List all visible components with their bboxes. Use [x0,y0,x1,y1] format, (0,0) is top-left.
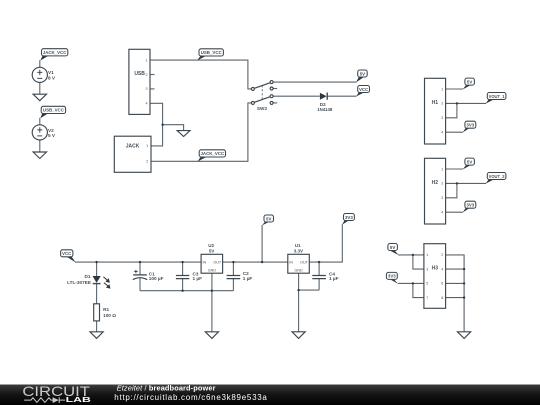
svg-text:D1: D1 [85,274,91,279]
svg-text:2: 2 [441,102,443,106]
svg-text:8: 8 [441,296,443,300]
svg-text:4: 4 [441,267,443,271]
svg-text:5V: 5V [209,249,215,254]
svg-text:IN: IN [203,261,207,265]
svg-text:1 µF: 1 µF [243,276,253,281]
svg-text:3.3V: 3.3V [294,249,303,254]
svg-text:5V: 5V [390,245,395,250]
svg-text:1: 1 [426,253,428,257]
svg-text:1: 1 [146,144,148,148]
svg-text:5V: 5V [467,159,472,164]
svg-text:5 V: 5 V [48,133,56,138]
svg-text:3V3: 3V3 [345,215,353,220]
svg-text:IN: IN [289,261,293,265]
svg-text:GND: GND [208,269,217,273]
svg-text:USB_VCC: USB_VCC [201,50,223,55]
svg-text:VOUT_2: VOUT_2 [489,174,506,179]
svg-text:2: 2 [441,253,443,257]
svg-text:3V3: 3V3 [466,203,474,208]
svg-text:100 µF: 100 µF [149,276,164,281]
svg-text:V1: V1 [48,70,54,75]
svg-text:SW2: SW2 [257,106,268,111]
svg-text:2: 2 [146,73,148,77]
svg-text:VOUT_1: VOUT_1 [489,94,506,99]
svg-text:http://circuitlab.com/c6ne3k89: http://circuitlab.com/c6ne3k89e533a [114,393,267,402]
svg-text:V2: V2 [48,128,54,133]
svg-text:U1: U1 [295,243,301,248]
svg-text:3V3: 3V3 [388,274,396,279]
svg-text:8 V: 8 V [48,76,56,81]
svg-text:USB_VCC: USB_VCC [43,108,65,113]
svg-text:JACK_VCC: JACK_VCC [200,151,224,156]
svg-text:Etzeitet / breadboard-power: Etzeitet / breadboard-power [117,383,216,392]
svg-text:1 µF: 1 µF [329,276,339,281]
svg-text:OUT: OUT [213,261,222,265]
svg-text:3: 3 [146,87,148,91]
svg-text:GND: GND [294,269,303,273]
svg-text:2: 2 [441,182,443,186]
svg-text:7: 7 [426,296,428,300]
svg-text:OUT: OUT [300,261,309,265]
svg-text:100 Ω: 100 Ω [103,313,116,318]
svg-text:1 µF: 1 µF [193,276,203,281]
svg-text:5V: 5V [266,216,271,221]
svg-text:6: 6 [441,282,443,286]
svg-text:H1: H1 [432,100,439,106]
svg-text:JACK_VCC: JACK_VCC [43,50,67,55]
svg-text:LAB: LAB [66,395,92,404]
svg-text:3: 3 [426,267,428,271]
svg-text:5V: 5V [467,79,472,84]
svg-text:R1: R1 [103,307,109,312]
svg-text:3: 3 [441,116,443,120]
svg-text:3V3: 3V3 [466,123,474,128]
svg-text:1: 1 [441,87,443,91]
svg-text:USB: USB [134,71,145,77]
svg-text:3: 3 [441,196,443,200]
svg-text:4: 4 [146,102,148,106]
svg-text:1: 1 [146,58,148,62]
svg-text:VCC: VCC [62,251,72,256]
svg-text:5V: 5V [360,71,365,76]
svg-text:LTL-307EE: LTL-307EE [67,280,91,285]
svg-text:H3: H3 [432,265,439,271]
svg-text:2: 2 [146,160,148,164]
svg-text:VCC: VCC [359,87,369,92]
svg-text:4: 4 [441,211,443,215]
svg-text:5: 5 [426,282,428,286]
svg-text:U2: U2 [208,243,214,248]
svg-text:H2: H2 [432,180,439,186]
svg-text:JACK: JACK [126,144,140,150]
svg-text:4: 4 [441,131,443,135]
svg-text:1N4148: 1N4148 [317,107,333,112]
svg-text:1: 1 [441,167,443,171]
